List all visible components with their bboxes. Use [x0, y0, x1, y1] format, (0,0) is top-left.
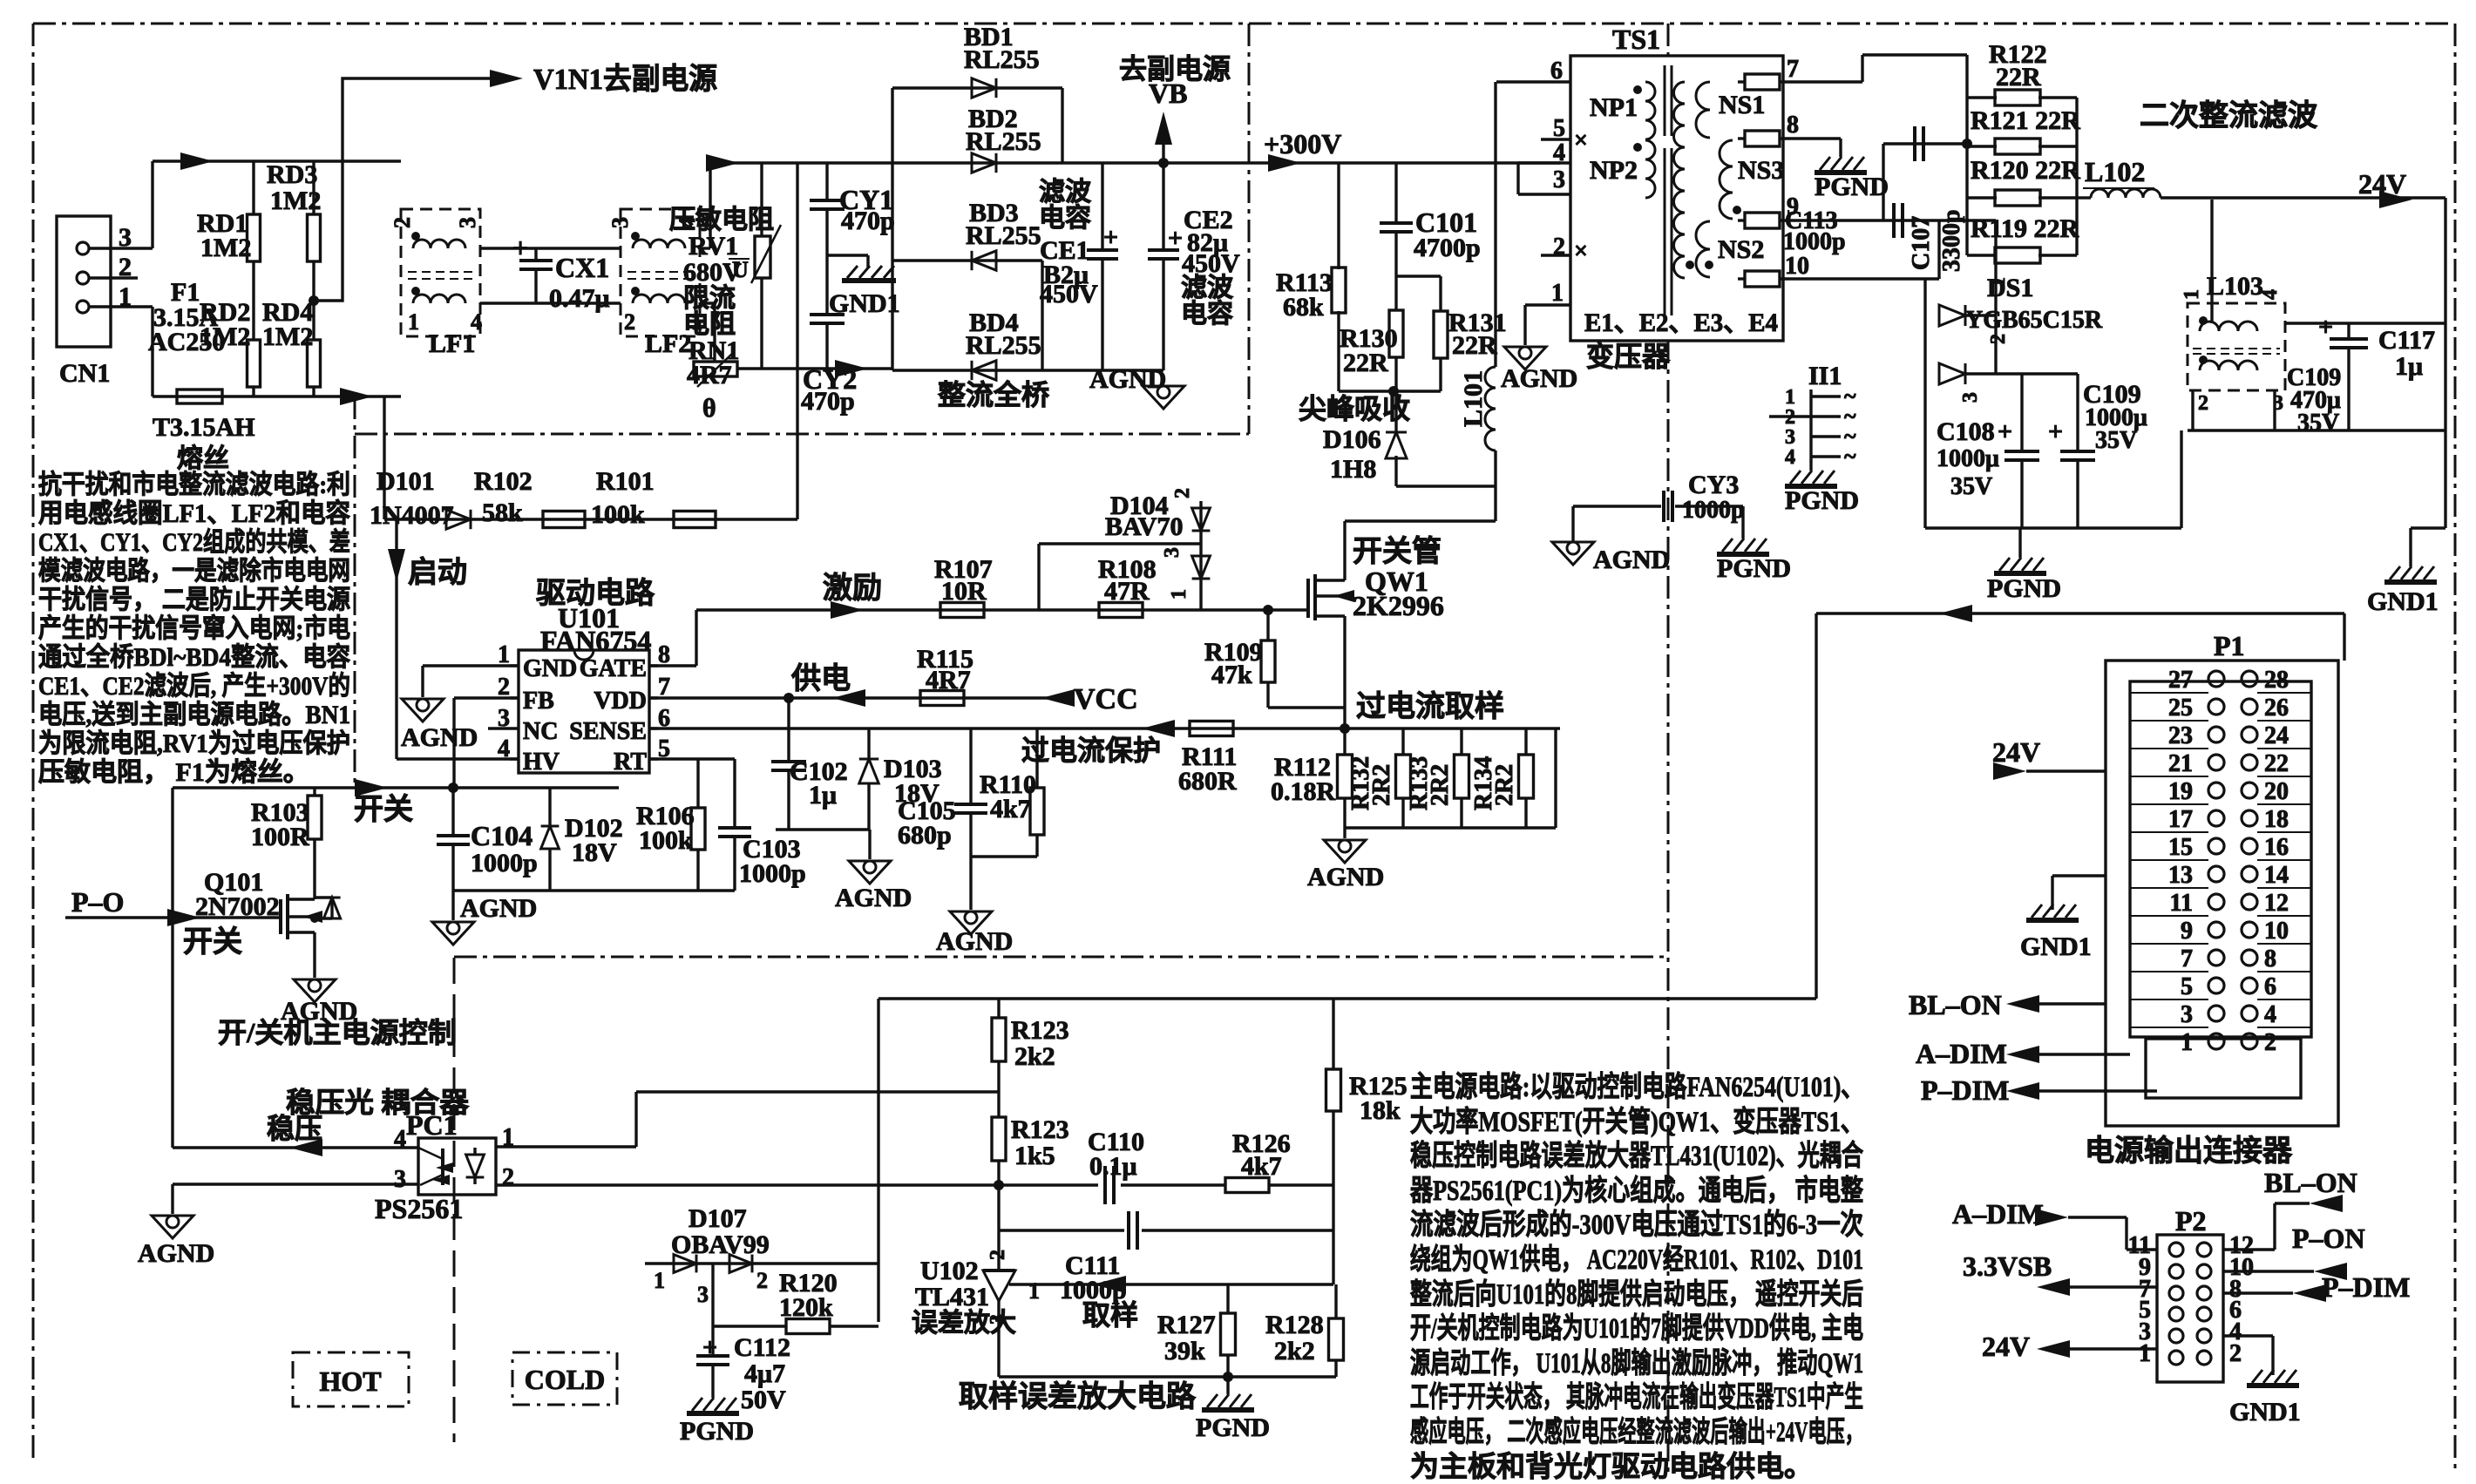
svg-text:U102: U102 [920, 1257, 979, 1285]
svg-text:RD3: RD3 [267, 160, 317, 189]
svg-text:CX1: CX1 [555, 252, 609, 283]
svg-text:47k: 47k [1211, 661, 1252, 689]
svg-text:1N4007: 1N4007 [370, 501, 454, 530]
svg-text:1: 1 [2181, 289, 2203, 300]
svg-text:GND1: GND1 [2229, 1398, 2301, 1426]
svg-text:BAV70: BAV70 [1105, 512, 1183, 541]
svg-text:24V: 24V [1982, 1331, 2030, 1362]
svg-text:VB: VB [1149, 78, 1187, 109]
svg-text:AGND: AGND [138, 1239, 214, 1268]
svg-text:R123: R123 [1011, 1016, 1069, 1045]
svg-text:3: 3 [455, 217, 480, 228]
svg-text:变压器: 变压器 [1586, 341, 1671, 372]
svg-text:2K2996: 2K2996 [1353, 590, 1444, 621]
svg-text:2: 2 [987, 1250, 1009, 1260]
svg-text:100k: 100k [591, 500, 645, 529]
svg-text:16: 16 [2264, 834, 2289, 861]
svg-text:PGND: PGND [680, 1417, 754, 1446]
svg-text:100k: 100k [639, 826, 693, 855]
svg-text:干扰信号， 二是防止开关电源: 干扰信号， 二是防止开关电源 [38, 586, 350, 614]
svg-text:压敏电阻: 压敏电阻 [669, 206, 774, 234]
svg-text:整流后向U101的8脚提供启动电压， 遥控开关后: 整流后向U101的8脚提供启动电压， 遥控开关后 [1410, 1278, 1863, 1311]
svg-text:激励: 激励 [823, 572, 882, 605]
svg-text:COLD: COLD [525, 1364, 605, 1395]
svg-text:1: 1 [1987, 277, 2010, 288]
svg-text:电阻: 电阻 [683, 310, 736, 339]
svg-text:YGB65C15R: YGB65C15R [1965, 307, 2103, 334]
svg-text:R128: R128 [1265, 1311, 1324, 1339]
svg-text:12: 12 [2264, 890, 2289, 917]
svg-text:RL255: RL255 [966, 221, 1041, 250]
svg-text:680R: 680R [1178, 767, 1237, 796]
svg-text:7: 7 [2181, 945, 2193, 972]
svg-text:通过全桥BDl~BD4整流、电容: 通过全桥BDl~BD4整流、电容 [38, 642, 350, 672]
svg-text:1000p: 1000p [1783, 228, 1846, 255]
svg-text:HV: HV [523, 749, 560, 776]
svg-text:R119 22R: R119 22R [1971, 214, 2079, 243]
svg-text:35V: 35V [2095, 427, 2137, 454]
svg-text:24: 24 [2264, 722, 2289, 749]
svg-text:4R7: 4R7 [926, 666, 971, 695]
svg-text:+: + [512, 232, 528, 263]
svg-text:工作于开关状态， 其脉冲电流在输出变压器TS1中产生: 工作于开关状态， 其脉冲电流在输出变压器TS1中产生 [1410, 1380, 1863, 1413]
svg-text:流滤波后形成的-300V电压通过TS1的6-3一次: 流滤波后形成的-300V电压通过TS1的6-3一次 [1410, 1209, 1863, 1241]
svg-text:滤波: 滤波 [1039, 178, 1092, 207]
svg-text:VDD: VDD [594, 688, 647, 715]
svg-text:58k: 58k [482, 498, 523, 527]
svg-text:供电: 供电 [790, 662, 851, 695]
svg-text:10: 10 [2264, 918, 2289, 945]
svg-text:2: 2 [390, 217, 415, 228]
svg-text:R127: R127 [1157, 1311, 1216, 1339]
svg-text:28: 28 [2264, 667, 2289, 694]
svg-text:6: 6 [2264, 973, 2276, 1000]
svg-text:源启动工作， U101从8脚输出激励脉冲， 推动QW1: 源启动工作， U101从8脚输出激励脉冲， 推动QW1 [1410, 1347, 1863, 1379]
svg-text:13: 13 [2168, 862, 2193, 889]
svg-text:2: 2 [624, 309, 635, 335]
svg-text:开关管: 开关管 [1353, 535, 1442, 568]
svg-text:3: 3 [1959, 392, 1982, 403]
svg-text:压敏电阻， F1为熔丝。: 压敏电阻， F1为熔丝。 [38, 757, 309, 787]
svg-text:680p: 680p [898, 821, 952, 850]
svg-text:过电流保护: 过电流保护 [1021, 735, 1161, 766]
svg-text:3300p: 3300p [1938, 209, 1965, 272]
svg-text:R123: R123 [1011, 1115, 1069, 1144]
svg-text:1: 1 [1551, 280, 1564, 307]
svg-text:开/关机控制电路为U101的7脚提供VDD供电, 主电: 开/关机控制电路为U101的7脚提供VDD供电, 主电 [1410, 1312, 1863, 1345]
svg-text:VCC: VCC [1074, 683, 1138, 715]
svg-text:1: 1 [654, 1268, 665, 1293]
svg-text:L101: L101 [1459, 370, 1488, 427]
svg-text:3: 3 [697, 1282, 709, 1307]
svg-text:26: 26 [2264, 695, 2289, 722]
svg-text:RL255: RL255 [966, 331, 1041, 360]
svg-text:器PS2561(PC1)为核心组成。通电后， 市电整: 器PS2561(PC1)为核心组成。通电后， 市电整 [1410, 1174, 1863, 1207]
svg-text:RT: RT [614, 749, 647, 776]
svg-text:D107: D107 [689, 1204, 747, 1233]
svg-text:+: + [2048, 417, 2063, 446]
svg-text:二次整流滤波: 二次整流滤波 [2140, 99, 2317, 132]
svg-text:L103: L103 [2207, 272, 2263, 301]
svg-text:C117: C117 [2378, 326, 2435, 355]
svg-text:CE1、CE2滤波后, 产生+300V的: CE1、CE2滤波后, 产生+300V的 [38, 672, 350, 701]
svg-text:21: 21 [2168, 750, 2193, 777]
svg-text:电容: 电容 [1039, 204, 1091, 233]
svg-text:2k2: 2k2 [1014, 1042, 1055, 1071]
svg-text:滤波: 滤波 [1181, 274, 1234, 302]
svg-text:10R: 10R [941, 577, 987, 606]
svg-text:抗干扰和市电整流滤波电路:利: 抗干扰和市电整流滤波电路:利 [38, 470, 350, 499]
svg-text:稳压控制电路误差放大器TL431(U102)、光耦合: 稳压控制电路误差放大器TL431(U102)、光耦合 [1410, 1140, 1863, 1172]
svg-text:3.3VSB: 3.3VSB [1963, 1250, 2052, 1282]
svg-text:17: 17 [2168, 806, 2193, 833]
svg-text:14: 14 [2264, 862, 2289, 889]
svg-text:CY3: CY3 [1688, 471, 1739, 499]
svg-text:4700p: 4700p [1414, 234, 1481, 262]
svg-text:PGND: PGND [1717, 554, 1791, 583]
svg-text:电容: 电容 [1181, 300, 1233, 329]
svg-text:U: U [732, 257, 749, 282]
svg-text:为限流电阻,RV1为过电压保护: 为限流电阻,RV1为过电压保护 [38, 729, 350, 758]
svg-text:开/关机主电源控制: 开/关机主电源控制 [218, 1017, 457, 1048]
svg-text:大功率MOSFET(开关管)QW1、变压器TS1、: 大功率MOSFET(开关管)QW1、变压器TS1、 [1410, 1105, 1863, 1138]
svg-text:120k: 120k [779, 1293, 833, 1322]
svg-text:D106: D106 [1323, 425, 1381, 454]
svg-text:0.18R: 0.18R [1271, 777, 1336, 806]
svg-text:OBAV99: OBAV99 [671, 1230, 770, 1259]
svg-text:4: 4 [2264, 1001, 2276, 1028]
svg-text:PC1: PC1 [406, 1109, 458, 1141]
svg-text:P–DIM: P–DIM [2322, 1271, 2410, 1303]
svg-text:2k2: 2k2 [1274, 1337, 1315, 1365]
svg-text:18: 18 [2264, 806, 2289, 833]
svg-text:×: × [1574, 238, 1588, 265]
svg-text:68k: 68k [1283, 293, 1324, 322]
svg-text:SENSE: SENSE [569, 718, 647, 745]
svg-text:35V: 35V [1950, 473, 1992, 500]
svg-text:AGND: AGND [835, 884, 912, 912]
svg-text:电源输出连接器: 电源输出连接器 [2085, 1135, 2293, 1168]
svg-text:P1: P1 [2214, 630, 2245, 661]
svg-text:BL–ON: BL–ON [2264, 1167, 2357, 1198]
svg-text:AGND: AGND [1307, 863, 1384, 891]
svg-text:22R: 22R [1343, 349, 1388, 377]
svg-text:C112: C112 [734, 1333, 790, 1362]
svg-text:0.47μ: 0.47μ [549, 284, 610, 313]
svg-text:15: 15 [2168, 834, 2193, 861]
svg-text:4: 4 [1785, 446, 1795, 469]
svg-text:GND1: GND1 [2367, 587, 2439, 616]
svg-text:2: 2 [502, 1164, 514, 1191]
svg-text:35V: 35V [2297, 410, 2339, 437]
svg-text:熔丝: 熔丝 [177, 444, 229, 473]
svg-text:24V: 24V [2358, 168, 2406, 200]
svg-text:AGND: AGND [936, 927, 1013, 956]
svg-text:470p: 470p [801, 387, 855, 416]
svg-text:PS2561: PS2561 [375, 1193, 463, 1224]
svg-text:3: 3 [2181, 1001, 2193, 1028]
svg-text:PGND: PGND [1987, 574, 2061, 603]
svg-text:NS2: NS2 [1718, 235, 1764, 264]
svg-text:A–DIM: A–DIM [1916, 1038, 2007, 1069]
svg-text:主电源电路:以驱动控制电路FAN6254(U101)、: 主电源电路:以驱动控制电路FAN6254(U101)、 [1410, 1071, 1863, 1103]
svg-text:CX1、CY1、CY2组成的共模、差: CX1、CY1、CY2组成的共模、差 [38, 527, 350, 557]
svg-text:绕组为QW1供电， AC220V经R101、R102、D10: 绕组为QW1供电， AC220V经R101、R102、D101 [1410, 1243, 1863, 1276]
svg-text:0.1μ: 0.1μ [1089, 1152, 1137, 1181]
svg-text:P–O: P–O [71, 886, 124, 918]
svg-text:开关: 开关 [183, 925, 242, 959]
svg-text:450V: 450V [1040, 280, 1098, 308]
svg-text:模滤波电路，一是滤除市电电网: 模滤波电路，一是滤除市电电网 [38, 556, 350, 586]
svg-text:+: + [1998, 417, 2012, 446]
svg-text:4: 4 [498, 735, 510, 762]
svg-text:470p: 470p [841, 207, 895, 235]
svg-text:3: 3 [607, 217, 633, 228]
svg-text:BL–ON: BL–ON [1909, 989, 2002, 1020]
svg-text:1: 1 [1028, 1278, 1040, 1304]
svg-text:50V: 50V [741, 1386, 786, 1414]
svg-text:PGND: PGND [1196, 1413, 1270, 1442]
svg-text:25: 25 [2168, 695, 2193, 722]
svg-text:+: + [702, 1333, 717, 1362]
svg-text:5: 5 [2181, 973, 2193, 1000]
svg-text:D101: D101 [376, 467, 435, 496]
svg-text:1M2: 1M2 [262, 322, 313, 351]
svg-text:+: + [1168, 224, 1183, 253]
svg-text:1M2: 1M2 [270, 186, 321, 215]
svg-text:2: 2 [756, 1268, 768, 1293]
svg-text:1μ: 1μ [2395, 352, 2423, 381]
svg-text:R102: R102 [474, 467, 533, 496]
svg-text:启动: 启动 [408, 556, 467, 589]
svg-text:开关: 开关 [354, 793, 413, 826]
svg-text:C107: C107 [1908, 216, 1935, 270]
svg-text:GND1: GND1 [2020, 932, 2092, 961]
svg-text:2: 2 [2198, 392, 2208, 415]
svg-text:1000μ: 1000μ [1937, 445, 1999, 472]
svg-text:7: 7 [1787, 56, 1799, 83]
svg-text:~: ~ [1844, 444, 1856, 469]
svg-text:AGND: AGND [1501, 364, 1577, 393]
svg-text:1: 1 [408, 309, 419, 335]
svg-text:1000p: 1000p [1682, 497, 1745, 524]
svg-text:II1: II1 [1808, 362, 1842, 390]
svg-text:NP2: NP2 [1590, 156, 1638, 185]
svg-text:19: 19 [2168, 778, 2193, 805]
svg-text:1M2: 1M2 [200, 322, 250, 351]
svg-text:RL255: RL255 [964, 45, 1040, 74]
svg-text:CN1: CN1 [59, 359, 110, 388]
svg-text:2: 2 [1987, 334, 2010, 344]
svg-text:20: 20 [2264, 778, 2289, 805]
svg-text:RL255: RL255 [966, 127, 1041, 156]
svg-text:39k: 39k [1164, 1337, 1205, 1365]
svg-text:TL431: TL431 [915, 1283, 989, 1311]
svg-text:+: + [1103, 223, 1118, 252]
svg-text:NS3: NS3 [1738, 156, 1784, 185]
svg-text:2: 2 [2229, 1340, 2242, 1367]
svg-text:NC: NC [523, 718, 558, 745]
svg-text:C104: C104 [471, 820, 533, 851]
svg-text:3: 3 [1161, 547, 1184, 558]
svg-text:AGND: AGND [401, 723, 478, 752]
svg-text:为主板和背光灯驱动电路供电。: 为主板和背光灯驱动电路供电。 [1410, 1451, 1813, 1483]
svg-text:47R: 47R [1104, 577, 1150, 606]
svg-text:2R2: 2R2 [1427, 764, 1454, 806]
svg-text:FB: FB [523, 688, 554, 715]
svg-text:2R2: 2R2 [1368, 764, 1395, 806]
svg-text:+300V: +300V [1264, 128, 1341, 159]
svg-text:PGND: PGND [1785, 486, 1859, 515]
svg-text:1: 1 [2181, 1029, 2193, 1056]
svg-text:27: 27 [2168, 667, 2193, 694]
svg-text:100R: 100R [251, 823, 309, 851]
svg-text:过电流取样: 过电流取样 [1356, 690, 1504, 723]
svg-text:10: 10 [1785, 253, 1809, 280]
svg-text:1000p: 1000p [739, 859, 806, 888]
svg-text:感应电压， 二次感应电压经整流滤波后输出+24V电压，: 感应电压， 二次感应电压经整流滤波后输出+24V电压， [1410, 1415, 1863, 1448]
svg-text:限流: 限流 [683, 284, 736, 313]
svg-text:GATE: GATE [580, 655, 647, 682]
svg-text:23: 23 [2168, 722, 2193, 749]
svg-text:1: 1 [1168, 589, 1191, 600]
svg-text:取样误差放大电路: 取样误差放大电路 [959, 1380, 1197, 1413]
svg-text:8: 8 [2264, 945, 2276, 972]
svg-text:TS1: TS1 [1612, 24, 1660, 55]
svg-text:E1、E2、E3、E4: E1、E2、E3、E4 [1584, 308, 1778, 337]
svg-text:22R: 22R [1996, 63, 2041, 91]
svg-text:1k5: 1k5 [1014, 1142, 1055, 1170]
svg-text:22: 22 [2264, 750, 2289, 777]
svg-text:9: 9 [2181, 918, 2193, 945]
svg-text:用电感线圈LF1、LF2和电容: 用电感线圈LF1、LF2和电容 [38, 499, 350, 528]
svg-text:4μ7: 4μ7 [744, 1359, 785, 1388]
svg-text:稳压: 稳压 [267, 1113, 322, 1144]
svg-text:GND1: GND1 [829, 289, 900, 318]
svg-text:产生的干扰信号窜入电网;市电: 产生的干扰信号窜入电网;市电 [38, 613, 350, 643]
svg-text:C108: C108 [1937, 417, 1995, 446]
svg-text:R120 22R: R120 22R [1971, 156, 2080, 185]
svg-text:4k7: 4k7 [1241, 1152, 1282, 1181]
svg-text:R101: R101 [596, 467, 655, 496]
svg-text:整流全桥: 整流全桥 [938, 379, 1049, 410]
svg-text:θ: θ [702, 394, 716, 423]
svg-text:8: 8 [1787, 112, 1799, 139]
svg-text:AGND: AGND [1089, 365, 1166, 394]
svg-text:AGND: AGND [1593, 545, 1670, 574]
svg-text:L102: L102 [2085, 156, 2145, 187]
svg-text:A–DIM: A–DIM [1952, 1198, 2044, 1230]
svg-text:+: + [2318, 313, 2333, 342]
svg-text:1000p: 1000p [471, 849, 538, 878]
svg-text:4k7: 4k7 [990, 795, 1031, 823]
svg-text:V1N1去副电源: V1N1去副电源 [533, 63, 717, 96]
svg-text:24V: 24V [1992, 736, 2040, 768]
svg-text:18V: 18V [572, 838, 617, 867]
svg-text:T3.15AH: T3.15AH [153, 413, 255, 442]
svg-text:22R: 22R [1452, 331, 1497, 360]
svg-text:1μ: 1μ [809, 781, 837, 810]
svg-text:4: 4 [394, 1126, 406, 1153]
svg-text:×: × [1574, 127, 1588, 154]
svg-text:1: 1 [2139, 1340, 2151, 1367]
svg-text:尖峰吸收: 尖峰吸收 [1299, 393, 1410, 424]
svg-text:PGND: PGND [1815, 173, 1889, 201]
svg-text:2: 2 [2264, 1029, 2276, 1056]
svg-text:NP1: NP1 [1590, 93, 1638, 122]
svg-text:LF1: LF1 [429, 329, 475, 358]
svg-text:RV1: RV1 [689, 232, 738, 261]
svg-text:2: 2 [1171, 488, 1194, 498]
svg-text:取样: 取样 [1082, 1299, 1138, 1331]
svg-text:AGND: AGND [460, 894, 537, 923]
svg-text:3: 3 [1553, 166, 1565, 193]
svg-text:18k: 18k [1360, 1096, 1401, 1125]
svg-text:P2: P2 [2175, 1205, 2207, 1237]
svg-text:1H8: 1H8 [1330, 455, 1376, 484]
svg-text:电压,送到主副电源电路。BN1: 电压,送到主副电源电路。BN1 [38, 701, 350, 729]
svg-text:2R2: 2R2 [1491, 764, 1518, 806]
svg-text:P–DIM: P–DIM [1921, 1074, 2009, 1106]
svg-text:GND: GND [523, 655, 577, 682]
svg-text:HOT: HOT [319, 1365, 381, 1397]
svg-text:3: 3 [394, 1166, 406, 1193]
svg-text:P–ON: P–ON [2292, 1223, 2365, 1254]
svg-text:1M2: 1M2 [200, 234, 251, 262]
svg-text:R121 22R: R121 22R [1971, 106, 2080, 135]
svg-text:11: 11 [2170, 890, 2193, 917]
svg-text:NS1: NS1 [1719, 91, 1765, 119]
